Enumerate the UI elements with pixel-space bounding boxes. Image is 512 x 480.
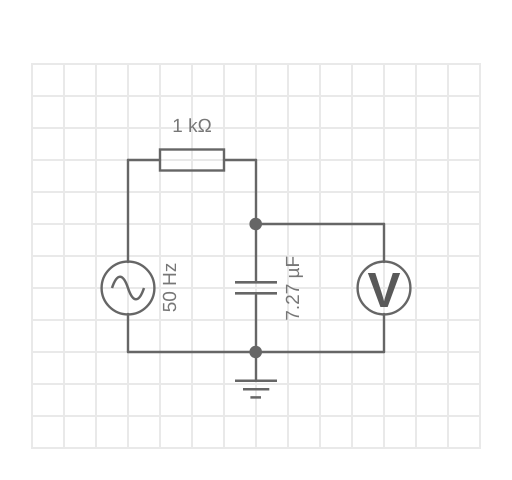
wire capacitor top lead (255, 224, 257, 281)
wire node A to voltmeter branch (256, 223, 384, 225)
ground (235, 352, 277, 397)
wire top-right horizontal (224, 159, 256, 161)
resistor value label 1 kΩ (174, 118, 211, 132)
capacitor value label 7.27 µF (286, 257, 303, 320)
wire bottom horizontal (128, 351, 384, 353)
node B junction dot (249, 346, 262, 359)
grid background (31, 63, 481, 449)
voltmeter letter V (368, 273, 400, 307)
voltmeter (358, 262, 411, 315)
wire top-left horizontal (128, 159, 160, 161)
wire capacitor bottom lead (255, 295, 257, 352)
AC source label 50 Hz (163, 264, 176, 312)
AC source (102, 262, 155, 315)
wire voltmeter top lead (383, 224, 385, 262)
capacitor (235, 282, 277, 293)
wire source bottom lead (127, 314, 129, 352)
wire voltmeter bottom lead (383, 314, 385, 352)
wire source top lead (127, 160, 129, 262)
wire right drop to node A (255, 160, 257, 224)
resistor (160, 150, 224, 171)
node A junction dot (249, 218, 262, 231)
